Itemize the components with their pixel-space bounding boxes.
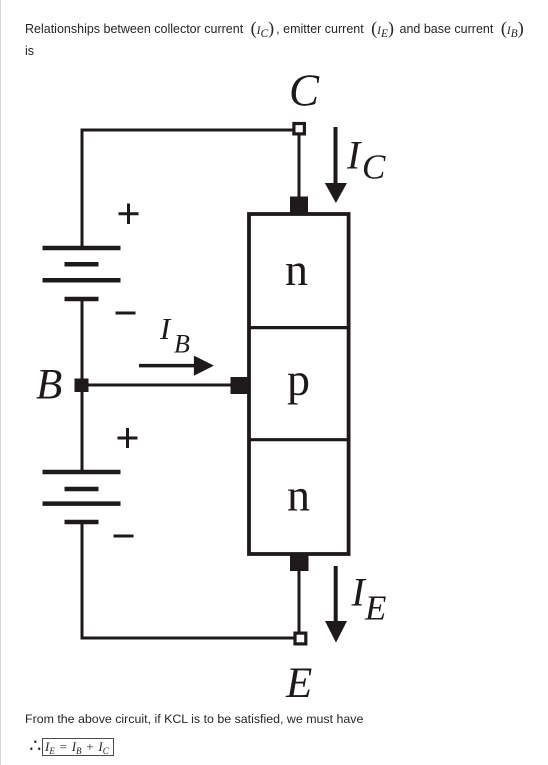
svg-text:p: p (287, 354, 310, 405)
svg-text:I: I (159, 311, 172, 346)
svg-text:C: C (289, 66, 320, 116)
svg-text:I: I (346, 133, 362, 178)
svg-text:E: E (285, 660, 312, 707)
svg-text:B: B (36, 362, 62, 409)
svg-text:C: C (362, 148, 386, 187)
svg-text:n: n (285, 244, 308, 295)
svg-text:E: E (364, 589, 386, 628)
svg-text:B: B (174, 330, 190, 359)
svg-text:n: n (287, 470, 310, 521)
